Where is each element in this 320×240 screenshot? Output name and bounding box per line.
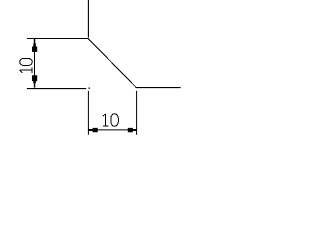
wire: top extension line of vertical dimension — [27, 38, 89, 40]
label: dimension text 10 (horizontal dimension) — [103, 114, 119, 127]
wire: vertical object line (top edge of chamfered corner) — [87, 0, 89, 38]
wire: chamfer diagonal line — [89, 39, 136, 87]
label: rotated dimension text 10 (vertical dimension) — [20, 58, 33, 73]
arrow: vertical dimension bottom arrowhead — [32, 75, 37, 87]
wire: bottom extension line of vertical dimension — [27, 88, 86, 90]
wire: vertical dimension line — [34, 39, 36, 88]
arrow: horizontal dimension right arrowhead — [128, 128, 137, 132]
wire: horizontal dimension line — [88, 129, 136, 131]
wire: horizontal object line (bottom edge right of chamfer) — [136, 87, 181, 89]
wire: left extension line of horizontal dimension — [87, 91, 89, 135]
arrow: horizontal dimension left arrowhead — [89, 128, 98, 132]
arrow: vertical dimension top arrowhead — [32, 39, 37, 52]
wire: right extension line of horizontal dimension — [136, 91, 138, 135]
node A: extension line origin dot at old corner — [89, 88, 90, 89]
